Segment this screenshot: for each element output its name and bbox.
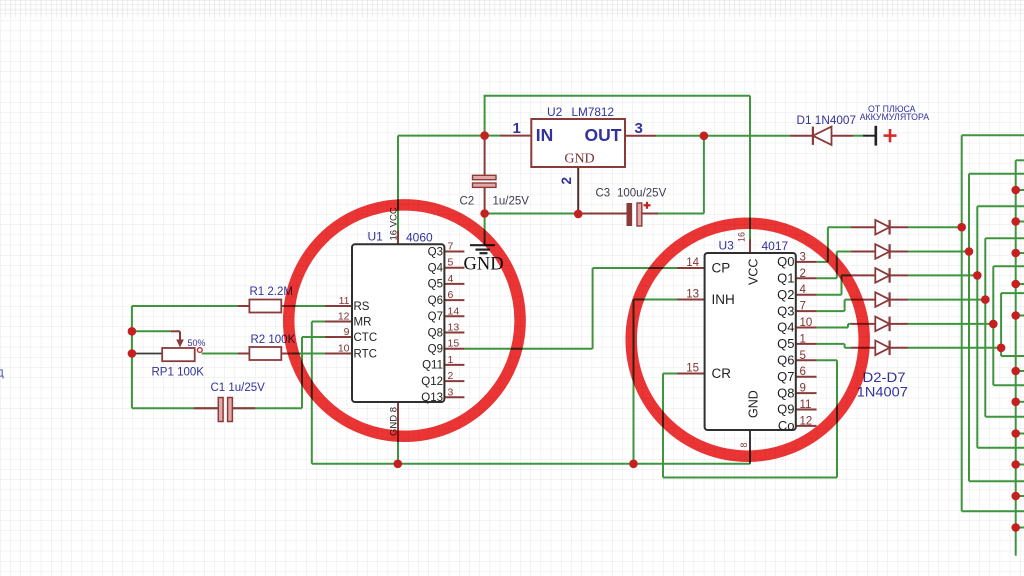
svg-text:MR: MR (354, 316, 372, 328)
svg-text:2: 2 (559, 177, 574, 185)
svg-text:Q7: Q7 (428, 311, 443, 323)
svg-text:U1: U1 (368, 230, 384, 244)
svg-text:Q13: Q13 (421, 392, 443, 404)
svg-text:6: 6 (800, 366, 806, 378)
svg-text:100u/25V: 100u/25V (617, 188, 667, 200)
svg-text:C1 1u/25V: C1 1u/25V (211, 382, 266, 394)
svg-text:Q9: Q9 (428, 344, 443, 356)
svg-text:Q2: Q2 (777, 287, 794, 302)
svg-text:RS: RS (354, 301, 370, 313)
svg-text:13: 13 (686, 289, 699, 301)
svg-text:Q6: Q6 (777, 353, 794, 368)
svg-text:Q8: Q8 (777, 385, 794, 400)
svg-text:8: 8 (739, 443, 749, 448)
svg-text:50%: 50% (188, 338, 206, 348)
svg-text:GND: GND (747, 390, 761, 418)
svg-text:INH: INH (712, 292, 735, 307)
svg-text:10: 10 (800, 317, 813, 329)
svg-text:4: 4 (800, 284, 807, 296)
svg-text:Q7: Q7 (777, 369, 794, 384)
svg-text:CP: CP (712, 261, 731, 276)
svg-text:3: 3 (800, 251, 806, 263)
svg-text:D2-D7: D2-D7 (863, 370, 906, 385)
svg-text:CTC: CTC (354, 332, 378, 344)
svg-text:16: 16 (737, 232, 747, 242)
svg-text:11: 11 (800, 399, 812, 411)
svg-text:7: 7 (800, 301, 806, 313)
svg-text:Q8: Q8 (428, 327, 443, 339)
svg-text:13: 13 (448, 322, 460, 334)
svg-text:RP1 100K: RP1 100K (152, 367, 205, 379)
svg-text:Q12: Q12 (421, 376, 443, 388)
svg-text:2: 2 (800, 268, 806, 280)
svg-text:9: 9 (344, 326, 350, 338)
svg-text:14: 14 (448, 305, 460, 317)
svg-text:1u/25V: 1u/25V (493, 196, 530, 208)
svg-text:12: 12 (800, 415, 813, 427)
svg-text:C3: C3 (596, 188, 611, 200)
svg-text:Q6: Q6 (428, 295, 443, 307)
svg-text:11: 11 (339, 295, 350, 307)
svg-text:4017: 4017 (762, 239, 789, 253)
svg-text:IN: IN (536, 125, 554, 145)
svg-text:3: 3 (448, 386, 454, 398)
svg-text:OUT: OUT (585, 125, 622, 145)
svg-text:VCC: VCC (747, 259, 761, 285)
svg-text:5: 5 (800, 350, 806, 362)
svg-text:Q0: Q0 (777, 254, 794, 269)
svg-text:6: 6 (448, 289, 454, 301)
svg-text:C2: C2 (460, 196, 475, 208)
svg-text:D1 1N4007: D1 1N4007 (797, 113, 857, 127)
svg-text:U3: U3 (719, 239, 735, 253)
svg-text:5: 5 (448, 257, 454, 269)
svg-text:GND: GND (564, 152, 594, 167)
svg-text:4: 4 (448, 273, 454, 285)
svg-text:16 VCC: 16 VCC (389, 207, 400, 240)
svg-text:АККУМУЛЯТОРА: АККУМУЛЯТОРА (860, 112, 930, 123)
svg-text:LM7812: LM7812 (572, 105, 615, 119)
svg-text:3: 3 (635, 120, 643, 137)
svg-text:14: 14 (686, 257, 699, 269)
svg-text:Q4: Q4 (777, 320, 794, 335)
svg-text:Q3: Q3 (777, 303, 794, 318)
svg-text:10: 10 (338, 343, 350, 355)
svg-text:9: 9 (800, 383, 806, 395)
svg-text:Q5: Q5 (428, 279, 443, 291)
svg-text:CR: CR (712, 366, 732, 381)
svg-text:Q3: Q3 (428, 246, 443, 258)
svg-text:1N4007: 1N4007 (857, 385, 908, 400)
svg-text:15: 15 (448, 338, 460, 350)
svg-text:RTC: RTC (354, 348, 377, 360)
svg-text:Co: Co (778, 418, 795, 433)
svg-text:1: 1 (448, 354, 454, 366)
svg-text:Q9: Q9 (777, 402, 794, 417)
svg-text:Q1: Q1 (777, 271, 794, 286)
svg-text:1: 1 (513, 120, 521, 137)
svg-text:1: 1 (800, 333, 806, 345)
svg-text:Q5: Q5 (777, 336, 794, 351)
svg-text:12: 12 (338, 311, 350, 323)
svg-text:U2: U2 (547, 105, 563, 119)
svg-text:Q4: Q4 (428, 263, 444, 275)
svg-text:Q11: Q11 (422, 360, 443, 372)
svg-text:4060: 4060 (406, 231, 433, 245)
svg-text:2: 2 (448, 370, 454, 382)
svg-text:15: 15 (686, 363, 699, 375)
svg-text:7: 7 (448, 241, 454, 253)
svg-text:Д: Д (0, 369, 4, 380)
